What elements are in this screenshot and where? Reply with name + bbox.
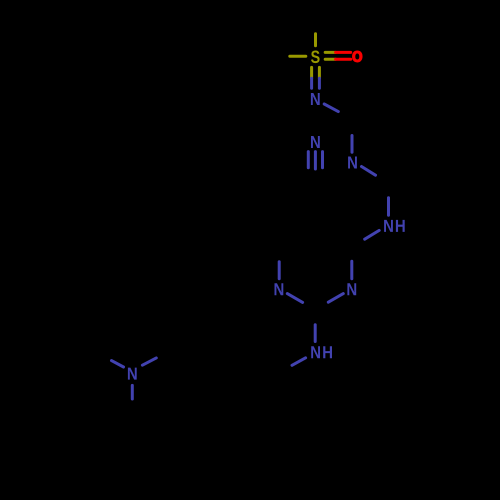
bond CH2-N(chain) (N half) bbox=[351, 136, 354, 153]
bond S=N left line bbox=[310, 67, 313, 88]
atom label N (sulfoximine nitrogen) bbox=[311, 93, 320, 105]
nitrile C#N triple bond left line (N half) bbox=[307, 152, 310, 168]
atom label N (chain nitrogen) bbox=[348, 157, 357, 169]
atom label O (sulfoximine oxygen) bbox=[353, 51, 362, 62]
bond S=O lower line bbox=[325, 58, 351, 61]
nitrile C#N triple bond center line (N half) bbox=[314, 152, 317, 169]
bond S=O upper line bbox=[325, 51, 351, 54]
bond S-CH3 top (S half) bbox=[314, 34, 317, 46]
bond S-CH3 left (S half) bbox=[290, 55, 306, 58]
atom label NH (amino linker top) bbox=[384, 220, 405, 232]
atom label N (ring nitrogen N3) bbox=[347, 283, 356, 295]
ring bond C4-N3 (N half) bbox=[350, 261, 353, 279]
bond amine N up-left (N half) bbox=[112, 361, 124, 367]
bond NH-aryl (N half) bbox=[292, 358, 306, 366]
atom label N (ring nitrogen N1) bbox=[275, 283, 284, 295]
ring bond C6-N1 (N half) bbox=[278, 262, 281, 279]
ring bond N3-C2 (N half) bbox=[328, 294, 343, 303]
bond N(sulfoximine)-CH2 (N half) bbox=[324, 104, 338, 112]
bond C2-NH anilino (N half) bbox=[314, 325, 317, 342]
bond amine N up-right (N half) bbox=[142, 358, 156, 365]
bond N(chain)-CH (N half) bbox=[362, 167, 376, 176]
bond S=N right line bbox=[318, 67, 321, 88]
bond amine N down (N half) bbox=[131, 385, 134, 399]
atom label N (nitrile nitrogen) bbox=[311, 136, 320, 148]
atom label S (sulfoximine sulfur) bbox=[311, 51, 320, 64]
bond NH-C4 ring (N half) bbox=[365, 230, 380, 239]
ring bond N1-C2 (N half) bbox=[287, 294, 302, 303]
nitrile C#N triple bond right line (N half) bbox=[321, 152, 324, 168]
atom label N (diethylamino nitrogen) bbox=[128, 368, 137, 380]
atom label NH (anilino) bbox=[311, 346, 332, 358]
bond CH-NH (N half) bbox=[387, 198, 390, 216]
